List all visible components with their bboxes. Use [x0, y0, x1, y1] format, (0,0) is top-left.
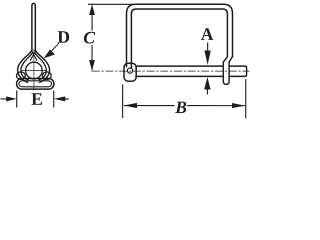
- dim A leader: [207, 43, 208, 52]
- dim C arrow up: [89, 4, 95, 15]
- label B: [175, 102, 186, 114]
- label A: [201, 28, 213, 40]
- centerline (dash-dot): [92, 70, 249, 72]
- label E: [31, 93, 41, 104]
- front view wire crossing: [30, 52, 37, 61]
- dim B line right: [187, 105, 245, 106]
- dim D arrow: [44, 49, 55, 58]
- dim B extension right: [245, 79, 246, 118]
- dim E extension right: [53, 90, 54, 107]
- dim E arrow left: [6, 96, 17, 101]
- dim E tail right: [65, 98, 68, 99]
- front view outer teardrop wrap: [18, 50, 50, 82]
- snap leg (crosses in front of shaft): [223, 57, 232, 85]
- side view loop outer: [127, 4, 233, 66]
- dim B extension left: [122, 84, 123, 118]
- dim E tail left: [0, 98, 6, 99]
- front view inner teardrop wrap: [21, 53, 46, 80]
- front view left coil curl: [17, 72, 26, 80]
- label C: [84, 32, 95, 44]
- dim A lower tail: [207, 90, 208, 95]
- side view loop inner: [131, 9, 227, 68]
- dim B line left: [124, 105, 175, 106]
- front view base inner line: [19, 81, 52, 87]
- front view base outer capsule: [17, 79, 54, 90]
- pin head wire end circle: [127, 68, 132, 73]
- front view vertical centermark: [33, 50, 35, 91]
- dim C extension line top: [88, 4, 133, 5]
- pin head: [124, 63, 136, 81]
- dim C arrow down: [89, 60, 95, 70]
- label D: [58, 31, 69, 42]
- pin shaft: [136, 66, 247, 76]
- front view stem (wire handle edge-on): [32, 3, 35, 51]
- dim B arrow left: [124, 103, 137, 108]
- front view horizontal centermark: [22, 70, 47, 72]
- dim E arrow right: [54, 96, 66, 101]
- front view right coil curl: [42, 72, 51, 80]
- dim E extension left: [16, 90, 17, 107]
- front view eye circle: [26, 62, 43, 79]
- dim A arrow down: [204, 51, 210, 65]
- dim C line upper: [92, 5, 93, 30]
- dim C line lower: [91, 45, 92, 70]
- dim D leader: [51, 43, 59, 52]
- dim B arrow right: [232, 103, 245, 108]
- dim A arrow up: [204, 77, 210, 90]
